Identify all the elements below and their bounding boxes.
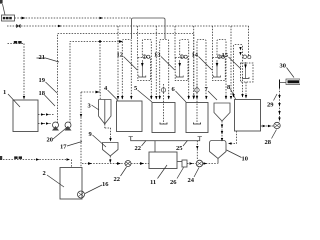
svg-text:8: 8 — [227, 84, 231, 91]
gauge unit 12 — [138, 58, 151, 81]
header drop 2 — [193, 26, 195, 99]
arrow on L1 — [22, 17, 26, 20]
tanks A B C — [117, 101, 143, 132]
drop to pump 24 — [196, 141, 198, 160]
tank B internal — [163, 84, 165, 124]
box 11 — [149, 152, 177, 169]
svg-text:30: 30 — [280, 63, 287, 70]
gauge4 to boxE — [245, 82, 247, 98]
svg-text:25: 25 — [176, 145, 183, 152]
box 26 — [182, 160, 187, 167]
svg-text:12: 12 — [117, 52, 124, 59]
drop to tank A — [117, 26, 119, 99]
drop to box11 — [154, 141, 156, 152]
unit 1 riser loop A — [122, 40, 131, 100]
gauge unit 14 — [213, 58, 226, 81]
pump 22 — [125, 161, 131, 167]
cyclone 3 — [99, 100, 112, 129]
svg-text:17: 17 — [60, 144, 67, 151]
junction dot — [99, 40, 101, 42]
pump22 to box11 — [131, 162, 149, 165]
pump 24 — [196, 160, 203, 167]
cyclone3 to cyclone9 — [105, 128, 111, 141]
corner glyph — [0, 0, 3, 4]
cyclone2 stem to cyclone10 — [221, 121, 223, 142]
L2 drop right — [248, 26, 250, 57]
gauge supply drop 3 — [212, 26, 214, 58]
arrow cyclone9 outlet — [109, 160, 111, 164]
L1 drop 2 — [133, 18, 165, 39]
svg-text:6: 6 — [172, 86, 176, 93]
line from box30 down — [278, 80, 286, 123]
unit 1 riser loop B — [142, 40, 151, 100]
unit 2 riser loop B — [180, 40, 189, 100]
solid feed line top-left — [8, 41, 26, 100]
box 30 — [286, 79, 300, 85]
pump 28 — [274, 122, 280, 128]
svg-text:11: 11 — [150, 179, 156, 186]
header drop 3 — [230, 26, 232, 99]
svg-text:5: 5 — [134, 85, 138, 92]
svg-text:7: 7 — [205, 86, 209, 93]
gauge unit 15 — [241, 63, 254, 82]
gauge unit 13 — [175, 58, 188, 81]
unit 2 riser loop A — [160, 40, 169, 100]
arrow into unit1 — [119, 40, 123, 43]
unit 3 riser loop A — [197, 40, 206, 100]
box 2 — [60, 168, 82, 200]
unit 3 riser loop B — [217, 40, 226, 100]
header L3 — [58, 34, 194, 124]
pump 16 — [78, 191, 85, 198]
svg-text:19: 19 — [39, 77, 46, 84]
svg-text:20: 20 — [47, 137, 54, 144]
leader to feed box — [3, 4, 6, 15]
box1 outlet lines — [38, 114, 54, 116]
svg-text:15: 15 — [222, 52, 229, 59]
pump B — [65, 122, 72, 131]
arrow into tank B right — [168, 96, 170, 100]
bottom feed line — [0, 156, 72, 167]
dark arrows unit4 — [239, 47, 241, 51]
svg-text:24: 24 — [188, 177, 195, 184]
arrow into tank A right — [130, 96, 132, 100]
unit 4 riser loop — [234, 45, 243, 98]
svg-text:13: 13 — [154, 52, 161, 59]
svg-text:18: 18 — [39, 90, 46, 97]
valve on L2 — [17, 24, 21, 28]
svg-text:2: 2 — [43, 170, 46, 177]
svg-text:21: 21 — [39, 54, 46, 61]
gauge supply drop 2 — [174, 26, 176, 58]
svg-text:1: 1 — [3, 89, 6, 96]
svg-text:29: 29 — [267, 102, 274, 109]
arrow on L1 mid — [100, 17, 104, 20]
arrow on L2 — [58, 25, 62, 28]
box E — [235, 100, 261, 132]
arrow into tank D — [241, 94, 243, 98]
tank C internal — [196, 84, 198, 124]
line to cyclone3 — [97, 42, 100, 93]
pump A — [52, 122, 59, 131]
svg-text:28: 28 — [265, 139, 272, 146]
svg-text:3: 3 — [88, 103, 92, 110]
header L5 — [70, 42, 121, 124]
svg-text:22: 22 — [135, 145, 142, 152]
box 1 — [13, 100, 38, 132]
cyclone 2 — [214, 103, 230, 121]
svg-text:22: 22 — [114, 176, 121, 183]
svg-text:9: 9 — [89, 131, 93, 138]
bottom header under tanks — [129, 137, 202, 141]
svg-text:4: 4 — [104, 85, 108, 92]
header L2 — [7, 25, 249, 27]
header drop 1 — [155, 26, 157, 99]
bottom transfer line — [82, 162, 125, 165]
arrow into tank C right — [205, 96, 207, 100]
L1 drop 1 — [132, 18, 134, 39]
header L1 — [15, 17, 132, 19]
line 17 vertical — [81, 91, 96, 93]
boxE to pump28 — [261, 125, 274, 128]
svg-text:14: 14 — [192, 52, 199, 59]
pump24 discharge to cyclone10 — [203, 163, 218, 165]
cyclone 9 — [103, 143, 119, 163]
feed box F1 — [2, 15, 15, 21]
gauge supply drop 1 — [137, 26, 139, 58]
box26 to pump24 — [187, 162, 196, 165]
svg-text:16: 16 — [102, 181, 109, 188]
cyclone 10 — [210, 141, 227, 164]
right feed to cyclone10 — [228, 103, 237, 145]
svg-text:10: 10 — [242, 156, 249, 163]
svg-text:26: 26 — [170, 179, 177, 186]
